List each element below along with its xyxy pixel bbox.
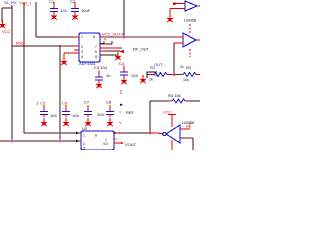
svg-text:VCC: VCC (163, 110, 172, 115)
svg-text:4: 4 (81, 55, 83, 59)
svg-text:104: 104 (131, 73, 138, 78)
svg-text:C3 104: C3 104 (94, 65, 108, 70)
svg-text:C8: C8 (106, 100, 112, 105)
svg-text:104: 104 (72, 113, 79, 118)
svg-text:6: 6 (95, 50, 97, 54)
svg-text:IN: IN (154, 73, 158, 78)
svg-text:1k: 1k (180, 65, 184, 69)
svg-text:104: 104 (50, 113, 57, 118)
svg-text:VCC: VCC (2, 29, 11, 34)
svg-text:C7: C7 (84, 100, 90, 105)
svg-text:C4: C4 (119, 61, 125, 66)
svg-text:V: V (104, 38, 107, 42)
svg-text:C6: C6 (62, 101, 68, 106)
svg-text:104: 104 (60, 8, 67, 13)
svg-text:2: 2 (81, 45, 83, 49)
svg-text:A5: A5 (186, 125, 190, 129)
svg-text:10uF: 10uF (81, 8, 91, 13)
svg-text:1: 1 (83, 134, 85, 138)
svg-text:R3 10k: R3 10k (168, 93, 181, 98)
svg-text:VO: VO (103, 142, 108, 146)
svg-text:RF_OUT: RF_OUT (133, 47, 150, 52)
svg-text:7: 7 (95, 45, 97, 49)
svg-text:C5: C5 (40, 101, 46, 106)
svg-text:OUT: OUT (154, 62, 163, 67)
svg-text:1: 1 (81, 35, 83, 39)
svg-text:3: 3 (81, 50, 83, 54)
svg-text:S1_RX: S1_RX (4, 0, 17, 5)
svg-text:VOUT: VOUT (125, 142, 137, 147)
svg-text:LM358: LM358 (184, 18, 197, 23)
svg-text:V+: V+ (113, 137, 119, 142)
svg-text:TXD_1: TXD_1 (19, 1, 32, 6)
svg-text:1n: 1n (106, 73, 110, 78)
svg-text:8: 8 (95, 134, 97, 138)
svg-text:R2: R2 (186, 65, 192, 70)
svg-text:104: 104 (97, 112, 104, 117)
svg-text:REF: REF (126, 110, 135, 115)
svg-text:RXD: RXD (16, 41, 25, 46)
svg-text:1k: 1k (149, 78, 153, 82)
svg-text:=: = (119, 110, 122, 115)
svg-text:10k: 10k (183, 78, 189, 82)
svg-text:U2: U2 (82, 126, 88, 131)
svg-text:VCO_OUT A: VCO_OUT A (102, 33, 124, 37)
svg-text:8: 8 (93, 35, 95, 39)
svg-text:3: 3 (83, 147, 85, 151)
svg-text:5: 5 (95, 55, 97, 59)
svg-text:2: 2 (83, 142, 85, 146)
svg-text:V: V (119, 120, 122, 125)
svg-text:1: 1 (36, 101, 39, 106)
